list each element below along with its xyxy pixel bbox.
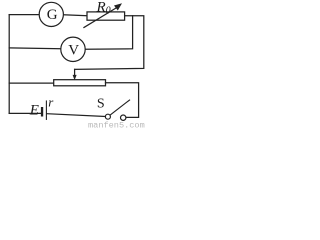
svg-text:G: G — [47, 7, 58, 23]
svg-text:V: V — [68, 43, 79, 59]
svg-text:manfen5.com: manfen5.com — [88, 120, 145, 129]
svg-text:S: S — [97, 97, 105, 112]
svg-text:R: R — [96, 0, 106, 16]
svg-text:0: 0 — [106, 5, 111, 16]
svg-text:E: E — [29, 102, 39, 118]
